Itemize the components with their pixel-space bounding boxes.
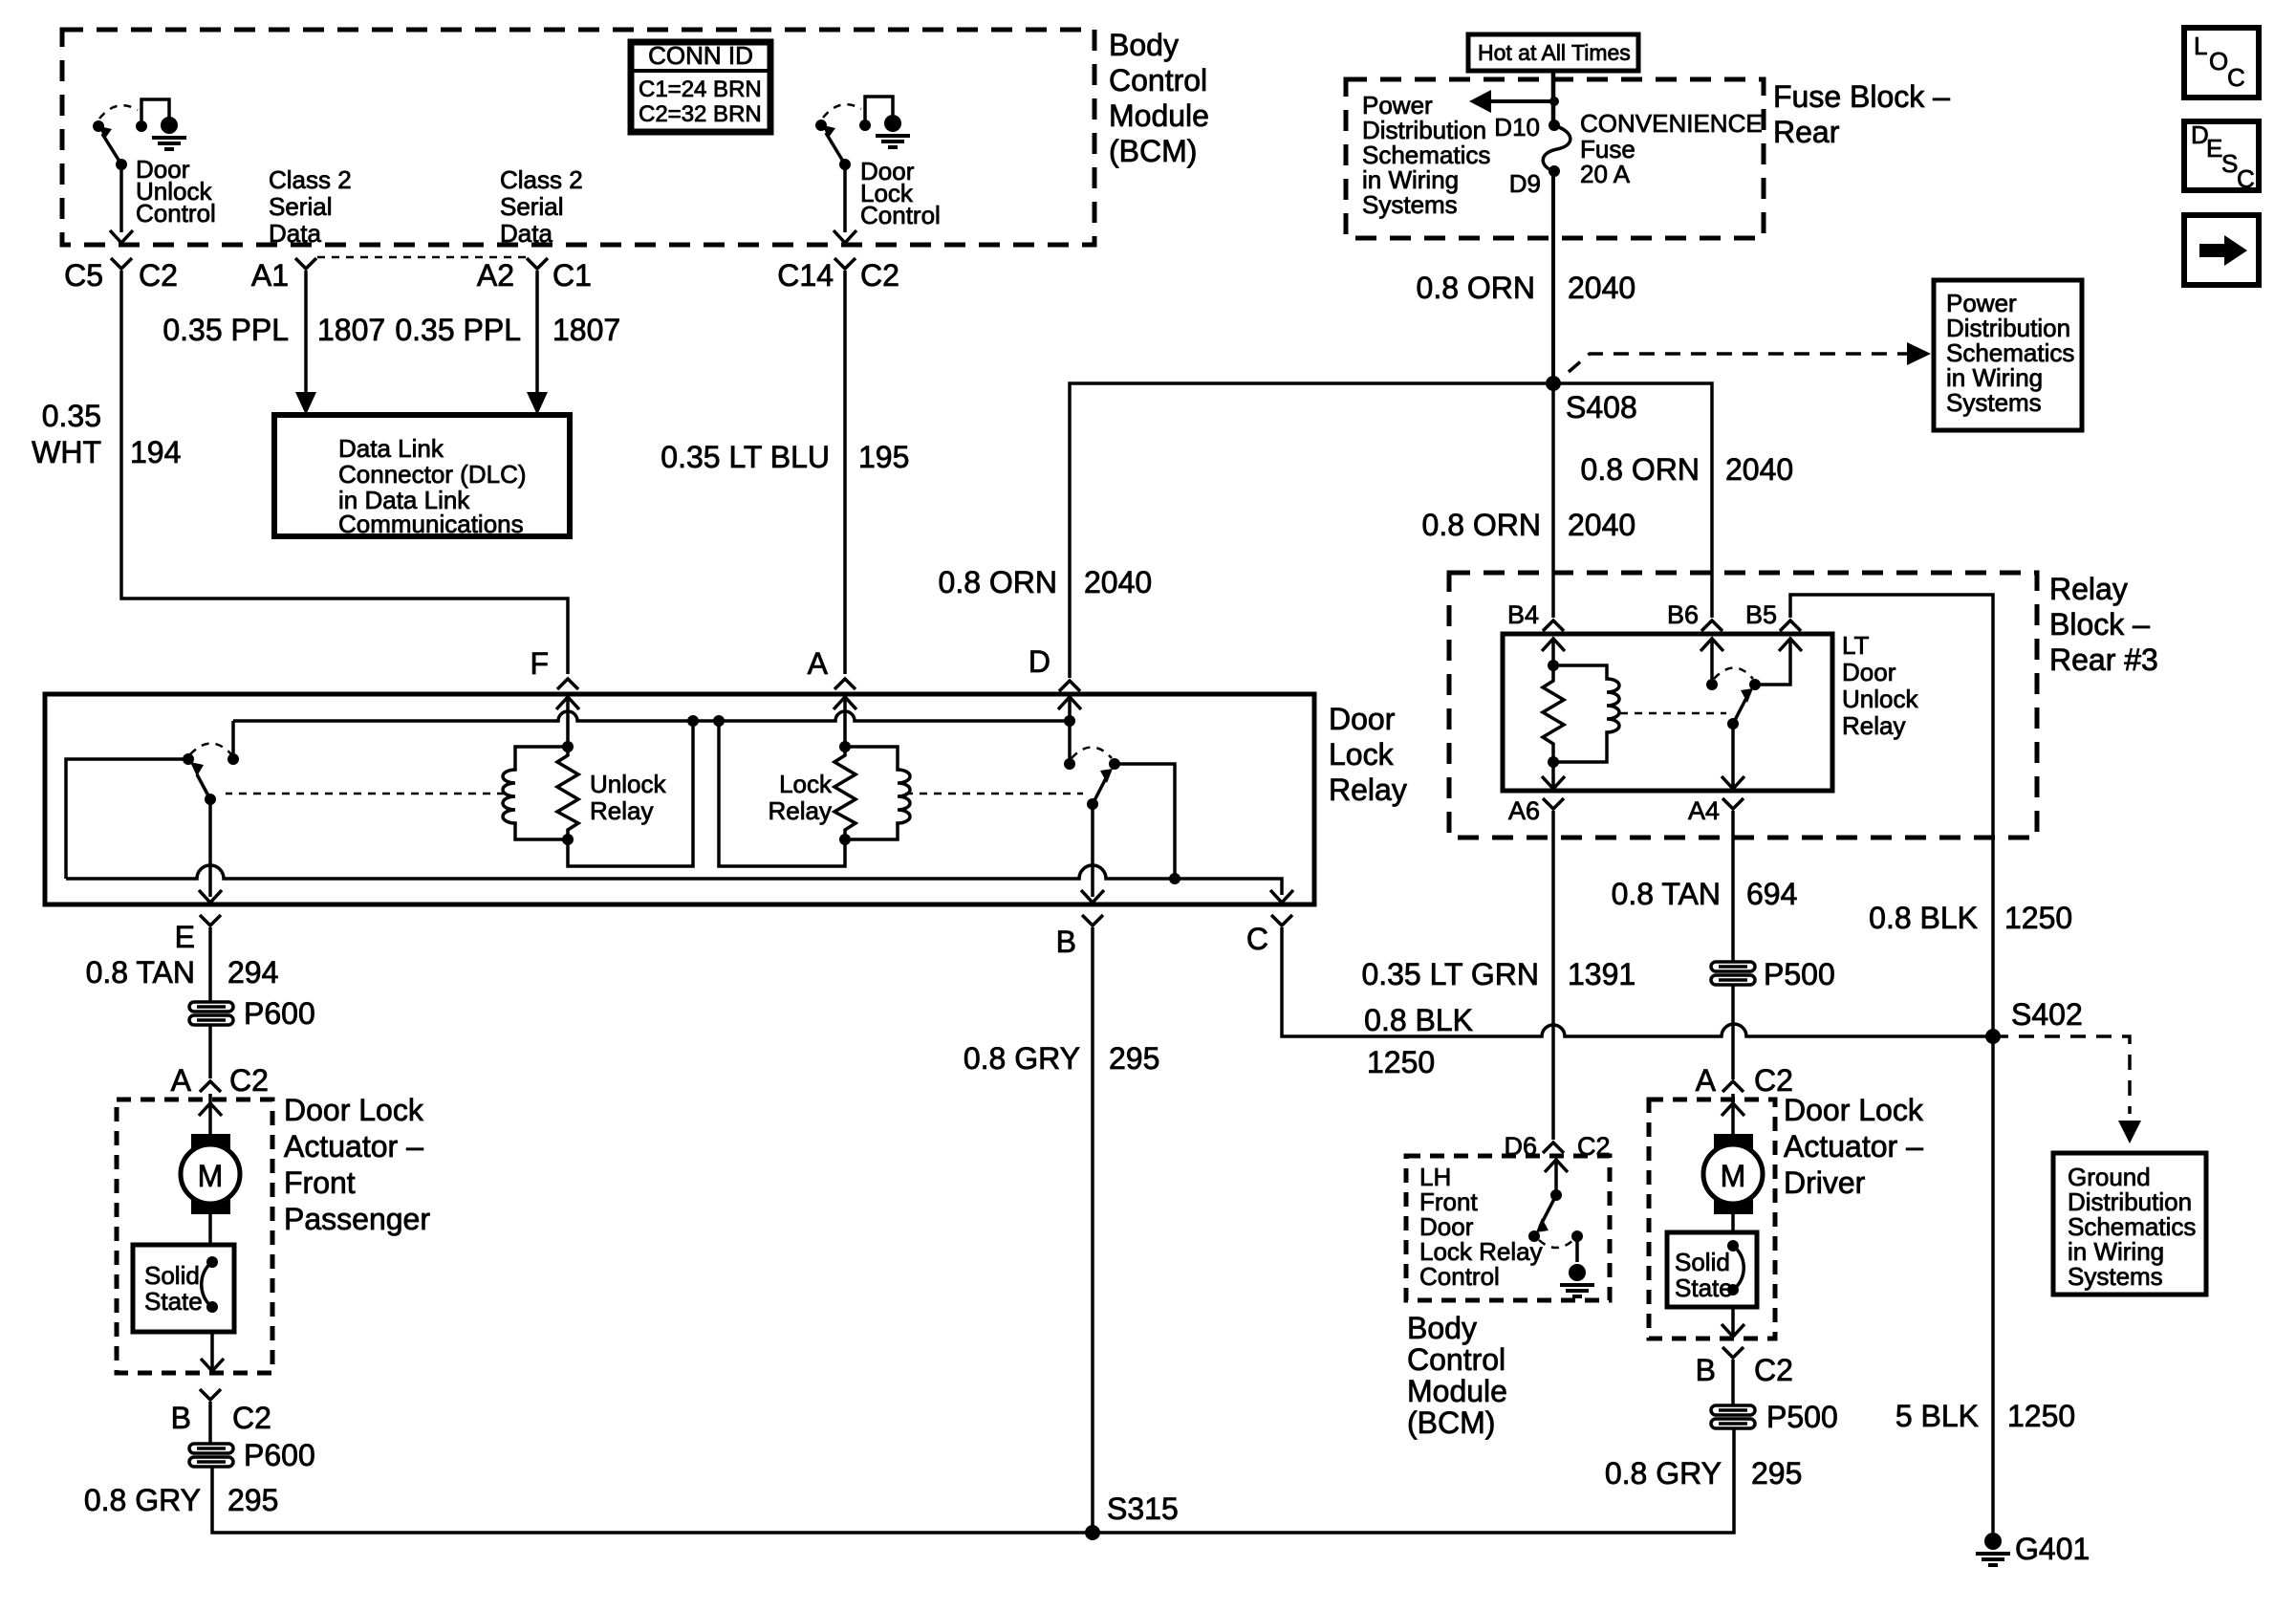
svg-text:0.35 LT GRN: 0.35 LT GRN [1361,957,1539,991]
svg-text:C2: C2 [860,258,899,293]
svg-text:Door: Door [1329,702,1396,736]
svg-text:0.8 ORN: 0.8 ORN [1581,452,1700,487]
svg-text:A: A [808,646,829,681]
svg-text:Module: Module [1407,1374,1507,1408]
svg-text:State: State [144,1287,203,1316]
svg-text:1250: 1250 [1367,1045,1435,1079]
svg-text:E: E [2206,134,2222,163]
svg-text:195: 195 [858,440,909,474]
svg-text:Data: Data [500,219,552,248]
svg-text:0.35 PPL: 0.35 PPL [395,313,521,347]
svg-text:B: B [171,1401,191,1435]
svg-text:Data Link: Data Link [338,434,444,463]
svg-text:Fuse Block –: Fuse Block – [1773,79,1950,114]
svg-text:295: 295 [227,1483,278,1517]
svg-text:Door Lock: Door Lock [284,1093,424,1127]
svg-text:B: B [1056,925,1076,959]
svg-text:1807: 1807 [317,313,385,347]
svg-text:Passenger: Passenger [284,1202,430,1236]
svg-text:D: D [1029,644,1051,679]
svg-text:Connector (DLC): Connector (DLC) [338,460,527,489]
svg-text:C2: C2 [139,258,178,293]
svg-text:C14: C14 [777,258,834,293]
svg-text:B6: B6 [1667,600,1699,629]
svg-text:Solid: Solid [144,1261,200,1290]
svg-text:C: C [2227,63,2245,92]
svg-text:Relay: Relay [590,796,653,825]
svg-text:D10: D10 [1494,113,1540,142]
svg-text:0.35 PPL: 0.35 PPL [162,313,289,347]
svg-text:A4: A4 [1688,796,1720,825]
svg-text:P500: P500 [1766,1400,1838,1434]
svg-text:694: 694 [1746,877,1797,911]
svg-text:C5: C5 [64,258,103,293]
svg-text:295: 295 [1751,1456,1802,1491]
svg-text:0.8 BLK: 0.8 BLK [1364,1003,1473,1037]
svg-text:Body: Body [1407,1311,1477,1345]
svg-text:(BCM): (BCM) [1407,1405,1495,1440]
svg-text:Rear #3: Rear #3 [2049,642,2158,677]
svg-text:Module: Module [1109,98,1209,133]
svg-text:1250: 1250 [2007,1399,2075,1433]
svg-text:Control: Control [860,201,941,229]
svg-text:C2: C2 [232,1401,271,1435]
svg-text:1807: 1807 [552,313,620,347]
svg-text:P500: P500 [1764,957,1835,991]
svg-text:5 BLK: 5 BLK [1895,1399,1979,1433]
svg-text:Actuator –: Actuator – [284,1129,423,1164]
svg-text:2040: 2040 [1568,508,1635,542]
svg-text:Driver: Driver [1784,1165,1866,1200]
svg-text:M: M [198,1159,224,1193]
svg-text:Serial: Serial [269,192,332,221]
svg-text:S402: S402 [2011,997,2083,1032]
svg-text:0.35 LT BLU: 0.35 LT BLU [661,440,830,474]
svg-text:Relay: Relay [2049,572,2128,606]
svg-text:Rear: Rear [1773,115,1840,149]
svg-text:0.8 ORN: 0.8 ORN [1422,508,1541,542]
svg-text:295: 295 [1109,1041,1159,1076]
svg-text:B5: B5 [1745,600,1777,629]
svg-text:S408: S408 [1566,390,1637,425]
svg-text:0.8 ORN: 0.8 ORN [1417,271,1535,305]
svg-text:Door Lock: Door Lock [1784,1093,1924,1127]
svg-text:Front: Front [284,1165,356,1200]
svg-text:Lock: Lock [779,770,833,798]
svg-text:C1: C1 [552,258,592,293]
svg-text:C: C [2237,164,2255,193]
svg-text:1250: 1250 [2004,901,2072,935]
svg-text:S315: S315 [1107,1491,1179,1526]
svg-text:P600: P600 [244,1438,315,1472]
svg-text:O: O [2209,47,2228,76]
svg-text:0.8 TAN: 0.8 TAN [86,955,195,990]
svg-text:Door: Door [1842,658,1896,686]
svg-text:Unlock: Unlock [590,770,666,798]
svg-text:0.8 GRY: 0.8 GRY [84,1483,201,1517]
svg-text:F: F [530,646,549,681]
svg-text:Systems: Systems [2068,1262,2163,1291]
svg-text:C2: C2 [1754,1353,1793,1387]
svg-text:(BCM): (BCM) [1109,134,1197,168]
svg-text:Communications: Communications [338,510,524,538]
svg-text:Control: Control [1109,63,1207,98]
svg-text:L: L [2194,32,2207,60]
svg-text:Systems: Systems [1362,190,1458,219]
svg-text:Hot at All Times: Hot at All Times [1478,40,1631,65]
svg-text:B: B [1696,1353,1716,1387]
svg-text:State: State [1675,1274,1733,1302]
svg-text:A: A [171,1063,192,1098]
svg-text:C2: C2 [229,1063,269,1098]
svg-text:0.8 GRY: 0.8 GRY [1605,1456,1722,1491]
svg-text:Class 2: Class 2 [500,165,583,194]
svg-text:Body: Body [1109,28,1179,62]
svg-text:Control: Control [1419,1262,1500,1291]
svg-text:S: S [2221,149,2238,178]
svg-text:Solid: Solid [1675,1248,1730,1276]
svg-text:Block –: Block – [2049,607,2150,642]
svg-text:Data: Data [269,219,321,248]
svg-text:0.8 GRY: 0.8 GRY [964,1041,1080,1076]
svg-text:E: E [175,920,195,954]
svg-text:0.8 ORN: 0.8 ORN [939,565,1057,599]
svg-text:20 A: 20 A [1580,160,1631,188]
svg-text:Unlock: Unlock [1842,685,1918,713]
svg-text:B4: B4 [1507,600,1539,629]
svg-text:0.35: 0.35 [42,399,101,433]
svg-text:Relay: Relay [1329,773,1407,807]
svg-text:WHT: WHT [32,435,101,469]
svg-text:194: 194 [130,435,181,469]
svg-text:Relay: Relay [1842,711,1905,740]
svg-text:294: 294 [227,955,278,990]
svg-text:C: C [1246,922,1268,956]
svg-text:2040: 2040 [1084,565,1152,599]
svg-text:2040: 2040 [1725,452,1793,487]
svg-text:CONVENIENCE: CONVENIENCE [1580,109,1763,138]
svg-text:0.8 BLK: 0.8 BLK [1869,901,1978,935]
svg-text:D9: D9 [1509,169,1541,198]
svg-text:C1=24 BRN: C1=24 BRN [639,76,762,102]
svg-text:CONN ID: CONN ID [648,41,753,70]
svg-text:0.8 TAN: 0.8 TAN [1612,877,1721,911]
svg-text:Control: Control [136,199,216,228]
svg-text:A: A [1696,1063,1717,1098]
svg-text:M: M [1721,1159,1746,1193]
svg-text:G401: G401 [2015,1532,2090,1566]
svg-text:Systems: Systems [1946,388,2042,417]
svg-text:2040: 2040 [1568,271,1635,305]
svg-text:Lock: Lock [1329,737,1395,772]
svg-text:A6: A6 [1508,796,1540,825]
svg-text:1391: 1391 [1568,957,1635,991]
svg-text:Relay: Relay [769,796,832,825]
svg-text:LT: LT [1842,631,1870,660]
svg-text:Actuator –: Actuator – [1784,1129,1923,1164]
svg-text:Serial: Serial [500,192,563,221]
svg-text:A2: A2 [477,258,514,293]
svg-text:Control: Control [1407,1342,1505,1377]
svg-text:P600: P600 [244,996,315,1031]
svg-text:A1: A1 [251,258,289,293]
svg-text:C2=32 BRN: C2=32 BRN [639,101,762,127]
svg-text:Class 2: Class 2 [269,165,352,194]
